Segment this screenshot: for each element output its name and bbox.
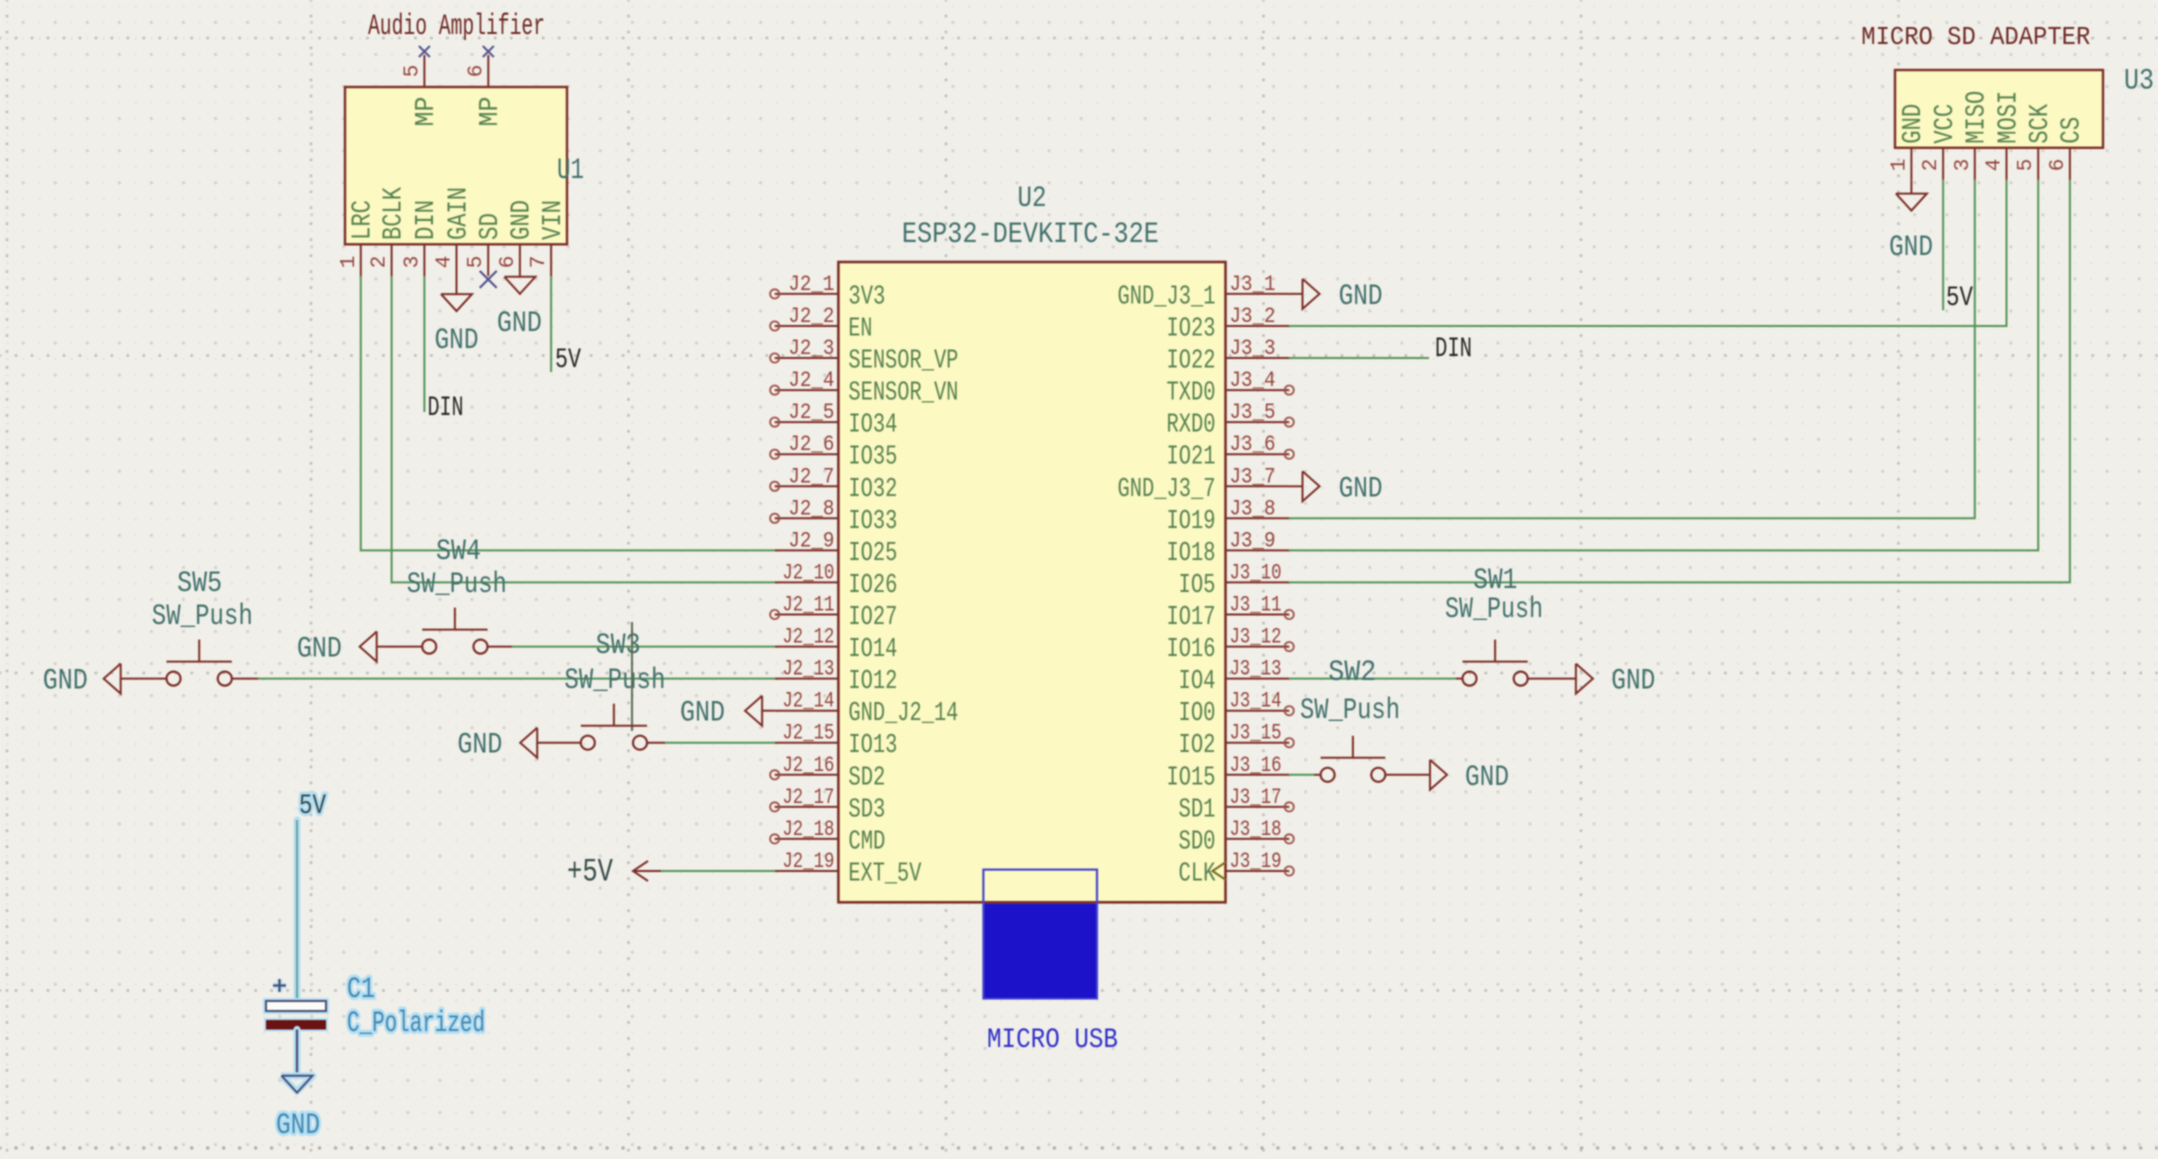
clock wedge at CLK pin <box>1213 862 1227 880</box>
svg-text:IO13: IO13 <box>848 731 897 761</box>
svg-text:GND: GND <box>1899 104 1929 144</box>
svg-text:J2_7: J2_7 <box>788 464 834 489</box>
svg-text:GND: GND <box>276 1109 320 1143</box>
svg-text:J3_17: J3_17 <box>1230 785 1282 810</box>
svg-text:SD: SD <box>476 213 506 240</box>
wire 5V to C1 (selected) <box>294 820 301 1001</box>
svg-text:VCC: VCC <box>1931 104 1961 144</box>
svg-text:J2_12: J2_12 <box>782 625 834 650</box>
connector U3 body <box>1895 70 2103 148</box>
svg-text:J3_15: J3_15 <box>1230 721 1282 746</box>
svg-text:LRC: LRC <box>349 200 379 240</box>
svg-text:GND: GND <box>1465 761 1509 795</box>
no-connect X <box>483 46 494 57</box>
svg-text:IO15: IO15 <box>1167 763 1216 793</box>
switch SW3 body <box>581 704 647 750</box>
wire SW3 to IO13 (J2_15) <box>647 742 665 744</box>
svg-text:J2_10: J2_10 <box>782 560 834 585</box>
svg-text:IO21: IO21 <box>1167 443 1216 473</box>
pin J3_4 TXD0 of U2 (right) <box>1167 368 1294 409</box>
capacitor C1 bottom lead <box>293 1030 300 1076</box>
wire IO19 (J3_8) to U3 MISO <box>1289 180 1975 519</box>
pin J2_8 IO33 of U2 (left) <box>770 496 897 537</box>
svg-text:MOSI: MOSI <box>1994 91 2024 144</box>
svg-text:ESP32-DEVKITC-32E: ESP32-DEVKITC-32E <box>902 218 1159 252</box>
pin J3_9 IO18 of U2 (right) <box>1167 528 1290 569</box>
svg-text:J3_4: J3_4 <box>1230 368 1276 393</box>
pin J2_4 SENSOR_VN of U2 (left) <box>770 368 958 409</box>
svg-text:IO17: IO17 <box>1167 603 1216 633</box>
pin J3_1 GND_J3_1 of U2 (right) <box>1118 272 1290 313</box>
svg-text:C1: C1 <box>347 973 375 1007</box>
svg-text:6: 6 <box>465 65 488 78</box>
svg-text:GND: GND <box>1339 472 1383 506</box>
svg-text:2: 2 <box>369 256 392 269</box>
pin J3_3 IO22 of U2 (right) <box>1167 336 1290 377</box>
ground symbol at SW5 <box>104 664 167 694</box>
svg-text:3V3: 3V3 <box>848 282 885 312</box>
pin J3_16 IO15 of U2 (right) <box>1167 753 1290 794</box>
svg-text:DIN: DIN <box>412 200 442 240</box>
svg-text:MICRO USB: MICRO USB <box>987 1025 1118 1056</box>
svg-text:SCK: SCK <box>2026 103 2056 144</box>
pin J3_17 SD1 of U2 (right) <box>1179 785 1294 826</box>
pin 6 GND of U1 (bottom) <box>497 200 538 276</box>
svg-text:RXD0: RXD0 <box>1167 411 1216 441</box>
wire IO5 (J3_10) to U3 CS <box>1289 180 2070 583</box>
pin 3 DIN of U1 (bottom) <box>401 200 442 276</box>
svg-text:VIN: VIN <box>539 200 569 240</box>
no-connect X <box>419 46 430 57</box>
svg-text:2: 2 <box>1920 159 1943 172</box>
svg-text:J2_19: J2_19 <box>782 849 834 874</box>
svg-text:IO33: IO33 <box>848 507 897 537</box>
svg-text:J3_14: J3_14 <box>1230 689 1282 714</box>
svg-text:J2_9: J2_9 <box>788 528 834 553</box>
svg-text:IO22: IO22 <box>1167 347 1216 377</box>
svg-text:J3_8: J3_8 <box>1230 496 1276 521</box>
wire U1 BCLK to IO26 (J2_10) <box>392 276 775 582</box>
svg-text:5: 5 <box>2015 159 2038 172</box>
svg-text:EN: EN <box>848 315 872 345</box>
svg-text:SD1: SD1 <box>1179 795 1216 825</box>
svg-text:U3: U3 <box>2124 65 2154 99</box>
svg-text:1: 1 <box>338 256 361 269</box>
svg-text:IO12: IO12 <box>848 667 897 697</box>
svg-text:J3_18: J3_18 <box>1230 817 1282 842</box>
pin J3_18 SD0 of U2 (right) <box>1179 817 1294 858</box>
svg-text:GND: GND <box>435 324 479 358</box>
svg-text:GND: GND <box>508 200 538 240</box>
wire SW4 to IO14 (J2_12) <box>487 646 512 648</box>
pin J2_3 SENSOR_VP of U2 (left) <box>770 336 958 377</box>
svg-text:IO2: IO2 <box>1179 731 1216 761</box>
svg-text:J2_11: J2_11 <box>782 593 834 618</box>
pin J3_11 IO17 of U2 (right) <box>1167 593 1294 634</box>
svg-text:5: 5 <box>401 65 424 78</box>
svg-text:J2_3: J2_3 <box>788 336 834 361</box>
svg-text:J2_16: J2_16 <box>782 753 834 778</box>
pin J2_13 IO12 of U2 (left) <box>775 657 898 698</box>
svg-text:5V: 5V <box>299 791 326 822</box>
switch SW1 body <box>1463 640 1528 686</box>
ground symbol at J2_14 <box>745 696 775 726</box>
pin J3_15 IO2 of U2 (right) <box>1179 721 1294 762</box>
stray vertical wire at SW3 <box>631 622 633 731</box>
svg-text:J3_3: J3_3 <box>1230 336 1276 361</box>
svg-text:J2_15: J2_15 <box>782 721 834 746</box>
svg-text:SENSOR_VN: SENSOR_VN <box>848 379 958 409</box>
svg-text:SW5: SW5 <box>177 567 222 601</box>
pin J3_10 IO5 of U2 (right) <box>1179 560 1290 601</box>
wire U1 VIN to 5V <box>550 276 552 372</box>
pin J2_11 IO27 of U2 (left) <box>770 593 897 634</box>
op-amp U1 body <box>345 87 567 244</box>
pin J2_15 IO13 of U2 (left) <box>775 721 898 762</box>
svg-text:J3_16: J3_16 <box>1230 753 1282 778</box>
pin J2_5 IO34 of U2 (left) <box>770 400 897 441</box>
pin J3_19 CLK of U2 (right) <box>1179 849 1294 890</box>
svg-text:J3_19: J3_19 <box>1230 849 1282 874</box>
wire IO23 (J3_2) to U3 MOSI <box>1289 180 2006 326</box>
connector MICRO USB outline <box>983 870 1097 999</box>
svg-text:3: 3 <box>401 256 424 269</box>
capacitor C1 top plate <box>266 1001 326 1011</box>
svg-text:DIN: DIN <box>1435 334 1472 365</box>
pin J3_12 IO16 of U2 (right) <box>1167 625 1294 666</box>
pin 1 GND of U3 <box>1888 104 1929 180</box>
svg-text:J2_2: J2_2 <box>788 304 834 329</box>
pin 4 GAIN of U1 (bottom) <box>434 187 475 276</box>
svg-text:J2_13: J2_13 <box>782 657 834 682</box>
pin 5 MP of U1 (top, no-connect) <box>401 55 442 127</box>
svg-text:J2_14: J2_14 <box>782 689 834 714</box>
svg-text:J2_8: J2_8 <box>788 496 834 521</box>
switch SW4 body <box>422 608 487 654</box>
wire U1 DIN down <box>423 276 425 412</box>
pin J3_14 IO0 of U2 (right) <box>1179 689 1294 730</box>
pin J2_2 EN of U2 (left) <box>770 304 872 345</box>
wire IO4 (J3_13) to SW1 <box>1289 678 1456 680</box>
svg-text:IO19: IO19 <box>1167 507 1216 537</box>
pin 6 MP of U1 (top, no-connect) <box>465 55 506 127</box>
svg-text:5V: 5V <box>555 345 581 376</box>
svg-text:J3_9: J3_9 <box>1230 528 1276 553</box>
wire EXT_5V to +5V label <box>661 870 775 872</box>
svg-text:J3_12: J3_12 <box>1230 625 1282 650</box>
ground symbol at J3_1 <box>1289 279 1319 309</box>
ground symbol at U1 GND pin <box>504 277 535 294</box>
svg-text:GND_J2_14: GND_J2_14 <box>848 699 958 729</box>
svg-text:CS: CS <box>2058 117 2088 144</box>
ground symbol at U1 GAIN <box>441 276 472 311</box>
svg-text:4: 4 <box>434 256 457 269</box>
svg-text:TXD0: TXD0 <box>1167 379 1216 409</box>
pin J3_13 IO4 of U2 (right) <box>1179 657 1290 698</box>
pin J2_12 IO14 of U2 (left) <box>775 625 898 666</box>
pin 2 VCC of U3 <box>1920 104 1961 180</box>
svg-text:GND: GND <box>497 307 542 341</box>
svg-text:J3_1: J3_1 <box>1230 272 1276 297</box>
wire U1 LRC to IO25 (J2_9) <box>361 276 775 550</box>
svg-text:7: 7 <box>528 256 551 269</box>
no-connect X at U1 SD <box>480 271 497 288</box>
ground symbol at J3_7 <box>1289 471 1319 501</box>
svg-text:IO35: IO35 <box>848 443 897 473</box>
svg-text:5V: 5V <box>1946 283 1973 314</box>
svg-text:GND: GND <box>680 697 725 731</box>
svg-text:J2_6: J2_6 <box>788 432 834 457</box>
svg-text:IO4: IO4 <box>1179 667 1216 697</box>
svg-text:GAIN: GAIN <box>444 187 474 240</box>
pin J2_10 IO26 of U2 (left) <box>775 560 898 601</box>
svg-text:J3_5: J3_5 <box>1230 400 1276 425</box>
pin 5 SCK of U3 <box>2015 103 2056 180</box>
svg-text:SW_Push: SW_Push <box>1445 593 1543 627</box>
pin 6 CS of U3 <box>2047 117 2088 180</box>
svg-text:MICRO SD ADAPTER: MICRO SD ADAPTER <box>1861 22 2090 52</box>
pin J3_5 RXD0 of U2 (right) <box>1167 400 1294 441</box>
pin J2_17 SD3 of U2 (left) <box>770 785 885 826</box>
svg-text:SW2: SW2 <box>1328 656 1376 690</box>
svg-text:SW_Push: SW_Push <box>407 568 507 602</box>
pin 7 VIN of U1 (bottom) <box>528 200 569 276</box>
switch SW5 body <box>167 640 232 686</box>
switch SW2 body <box>1321 736 1386 782</box>
svg-text:SW_Push: SW_Push <box>564 664 665 698</box>
svg-text:GND_J3_1: GND_J3_1 <box>1118 282 1216 312</box>
svg-text:IO26: IO26 <box>848 571 897 601</box>
wire U3 VCC to 5V <box>1942 180 1944 310</box>
svg-text:+5V: +5V <box>567 854 614 891</box>
svg-text:5: 5 <box>465 256 488 269</box>
svg-text:BCLK: BCLK <box>379 186 409 240</box>
svg-text:C_Polarized: C_Polarized <box>347 1007 485 1041</box>
svg-text:MP: MP <box>412 97 442 127</box>
ground symbol at SW4 <box>360 632 423 662</box>
svg-text:3: 3 <box>1952 159 1975 172</box>
svg-text:Audio Amplifier: Audio Amplifier <box>368 10 545 44</box>
svg-text:SW_Push: SW_Push <box>1300 694 1400 728</box>
svg-text:DIN: DIN <box>428 393 464 424</box>
svg-text:J3_10: J3_10 <box>1230 560 1282 585</box>
pin 5 SD of U1 (bottom) <box>465 213 506 276</box>
svg-text:6: 6 <box>497 256 520 269</box>
svg-text:EXT_5V: EXT_5V <box>848 860 922 890</box>
ground symbol at SW2 <box>1385 760 1447 790</box>
svg-text:SW_Push: SW_Push <box>152 600 253 634</box>
pin J2_18 CMD of U2 (left) <box>770 817 885 858</box>
svg-text:GND: GND <box>43 665 88 699</box>
hierarchical label +5V <box>567 854 661 891</box>
svg-text:IO25: IO25 <box>848 539 897 569</box>
svg-text:GND: GND <box>297 633 342 667</box>
svg-text:GND: GND <box>1339 280 1383 314</box>
pin J2_1 3V3 of U2 (left) <box>770 272 885 313</box>
svg-text:SW3: SW3 <box>596 629 641 663</box>
ground symbol at U3 GND <box>1896 180 1927 211</box>
svg-text:GND: GND <box>457 729 502 763</box>
wire IO15 (J3_16) to SW2 <box>1289 774 1314 776</box>
wire SW5 to IO12 (J2_13) <box>231 678 258 680</box>
svg-text:IO27: IO27 <box>848 603 897 633</box>
svg-text:IO18: IO18 <box>1167 539 1216 569</box>
svg-text:GND: GND <box>1889 231 1933 265</box>
pin 2 BCLK of U1 (bottom) <box>369 186 410 276</box>
wire IO22 (J3_3) to DIN label <box>1289 357 1429 359</box>
ground symbol at C1 <box>281 1076 313 1093</box>
svg-text:J3_6: J3_6 <box>1230 432 1276 457</box>
svg-text:SD2: SD2 <box>848 763 885 793</box>
svg-text:CLK: CLK <box>1179 860 1217 890</box>
svg-text:J3_2: J3_2 <box>1230 304 1276 329</box>
pin 4 MOSI of U3 <box>1984 91 2025 180</box>
svg-text:U1: U1 <box>557 154 584 188</box>
svg-text:J3_7: J3_7 <box>1230 464 1276 489</box>
ground symbol at SW3 <box>520 728 581 758</box>
svg-text:SD0: SD0 <box>1179 827 1216 857</box>
svg-text:IO0: IO0 <box>1179 699 1216 729</box>
svg-text:J3_11: J3_11 <box>1230 593 1282 618</box>
pin J2_9 IO25 of U2 (left) <box>775 528 898 569</box>
svg-text:J3_13: J3_13 <box>1230 657 1282 682</box>
svg-text:U2: U2 <box>1018 182 1047 216</box>
pin J2_7 IO32 of U2 (left) <box>770 464 897 505</box>
ground symbol at SW1 <box>1527 664 1593 694</box>
pin J2_19 EXT_5V of U2 (left) <box>775 849 922 890</box>
svg-text:SW4: SW4 <box>436 535 481 569</box>
svg-text:J2_1: J2_1 <box>788 272 834 297</box>
svg-text:6: 6 <box>2047 159 2070 172</box>
capacitor C1 plus sign <box>273 979 286 992</box>
pin J3_8 IO19 of U2 (right) <box>1167 496 1290 537</box>
wire IO18 (J3_9) to U3 SCK <box>1289 180 2038 551</box>
svg-text:IO16: IO16 <box>1167 635 1216 665</box>
pin J3_2 IO23 of U2 (right) <box>1167 304 1290 345</box>
MCU U2 body <box>838 262 1225 902</box>
svg-text:IO14: IO14 <box>848 635 897 665</box>
svg-text:J2_17: J2_17 <box>782 785 834 810</box>
pin 1 LRC of U1 (bottom) <box>338 200 379 276</box>
svg-text:IO5: IO5 <box>1179 571 1216 601</box>
pin J2_16 SD2 of U2 (left) <box>770 753 885 794</box>
svg-text:GND_J3_7: GND_J3_7 <box>1118 475 1216 505</box>
svg-text:J2_4: J2_4 <box>788 368 834 393</box>
svg-text:IO23: IO23 <box>1167 315 1216 345</box>
pin J3_6 IO21 of U2 (right) <box>1167 432 1294 473</box>
svg-text:CMD: CMD <box>848 827 885 857</box>
capacitor C1 bottom plate <box>266 1020 326 1030</box>
svg-text:GND: GND <box>1611 665 1655 699</box>
svg-text:J2_18: J2_18 <box>782 817 834 842</box>
pin J2_14 GND_J2_14 of U2 (left) <box>775 689 959 730</box>
svg-text:4: 4 <box>1984 159 2007 172</box>
svg-text:SD3: SD3 <box>848 795 885 825</box>
pin 3 MISO of U3 <box>1952 91 1993 180</box>
svg-text:IO34: IO34 <box>848 411 897 441</box>
connector MICRO USB body fill <box>984 904 1096 998</box>
svg-text:SENSOR_VP: SENSOR_VP <box>848 347 958 377</box>
svg-text:MP: MP <box>476 97 506 127</box>
svg-text:IO32: IO32 <box>848 475 897 505</box>
pin J2_6 IO35 of U2 (left) <box>770 432 897 473</box>
svg-text:J2_5: J2_5 <box>788 400 834 425</box>
svg-text:1: 1 <box>1888 159 1911 172</box>
pin J3_7 GND_J3_7 of U2 (right) <box>1118 464 1290 505</box>
svg-text:MISO: MISO <box>1963 91 1993 144</box>
